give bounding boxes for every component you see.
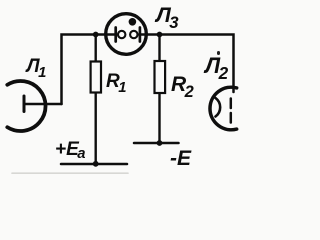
- label R2: [171, 74, 194, 95]
- tube Л2 envelope arc (partial, opening right): [210, 87, 237, 130]
- tube Л1 anode lead wire: [25, 103, 62, 106]
- neon lamp Л3 left electrode disc: [118, 31, 125, 38]
- neon lamp Л3 right electrode bar: [139, 28, 142, 42]
- label Л3: [156, 5, 179, 27]
- wire R2 vertical (top wire to -E rail): [158, 35, 160, 144]
- node junction dot R1 to +Ea rail: [93, 161, 99, 167]
- wire -E supply rail: [134, 142, 179, 145]
- label Л1: [27, 57, 47, 76]
- label +Ea: [55, 140, 86, 159]
- tube Л2 grid dashed line: [230, 99, 233, 126]
- label R1: [106, 72, 126, 91]
- neon lamp Л3 left electrode bar: [114, 28, 117, 42]
- wire +Ea supply rail: [61, 163, 127, 166]
- label Л2 accent dot: [217, 51, 220, 55]
- label -E: [170, 148, 191, 169]
- wire R1 vertical (top wire to +Ea rail): [94, 35, 96, 164]
- resistor R2 body: [155, 61, 166, 93]
- tube Л1 envelope arc (partial, opening left): [7, 81, 45, 131]
- resistor R1 body: [91, 62, 101, 93]
- wire top horizontal right segment (Л3 right electrode to Л2 grid riser): [139, 35, 234, 93]
- tube Л1 anode plate bar: [23, 96, 26, 112]
- label Л2: [205, 55, 228, 77]
- neon lamp Л3 right electrode disc: [130, 31, 137, 38]
- wire top horizontal left segment (Л1 riser corner to Л3 left electrode): [62, 35, 118, 105]
- node junction dot top of R2: [157, 32, 163, 38]
- tube Л2 cathode curve: [216, 98, 221, 117]
- node junction dot R2 to -E rail: [157, 140, 163, 146]
- node junction dot top of R1: [93, 32, 99, 38]
- neon lamp Л3 envelope circle: [106, 14, 147, 55]
- neon lamp Л3 gas-filling dot: [129, 18, 137, 26]
